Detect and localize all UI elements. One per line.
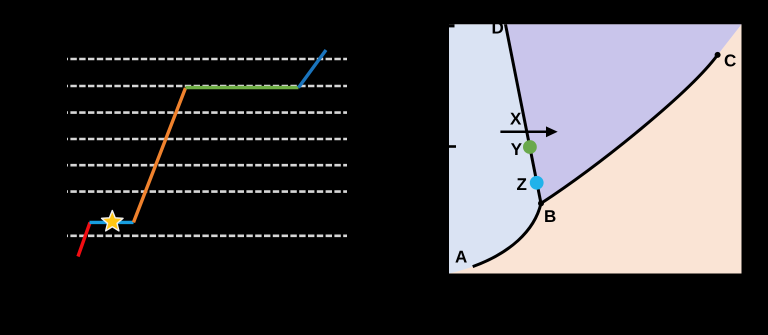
gridline 5 [67,164,347,167]
sublimation + vaporization curve A-B-C [473,55,718,267]
critical point C dot [715,52,721,58]
gridline 3 [67,111,347,114]
label X [510,113,521,125]
point Z (cyan dot) [530,176,544,190]
label Y [511,143,522,155]
solid region (light blue) [449,24,541,273]
gridline 2 [67,85,347,88]
point Y (green dot) [523,140,537,154]
y-axis tick [447,145,456,148]
label C [725,54,736,66]
label A [455,251,466,263]
gridline 6 [67,190,347,193]
blue segment (gas warming) [299,50,327,88]
liquid region (purple) [505,24,741,203]
label D [493,22,503,34]
red segment (solid warming) [78,223,90,257]
fusion line D-B [505,24,541,203]
label B [545,210,555,222]
orange segment (liquid warming) [134,88,186,222]
gridline 7 [67,235,347,238]
gas region (peach) [449,24,742,273]
triple point B dot [538,200,544,206]
axis corner notch top-left [448,23,455,27]
arrow at X [500,126,557,137]
star marker on melting plateau [102,211,124,231]
blue melting plateau segment [90,221,134,224]
gridline 4 [67,138,347,141]
gridline 1 [67,58,347,61]
green boiling plateau segment [186,86,299,89]
label Z [517,178,526,190]
